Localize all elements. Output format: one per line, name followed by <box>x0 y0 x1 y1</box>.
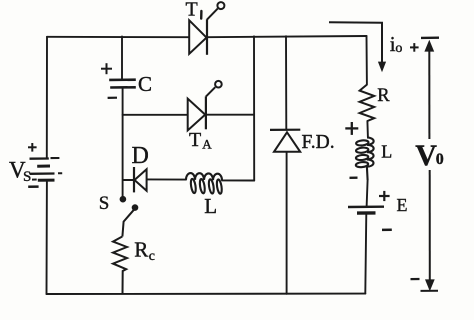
svg-text:L: L <box>381 142 392 162</box>
svg-text:T: T <box>186 0 198 20</box>
svg-text:R: R <box>377 86 390 106</box>
svg-text:T: T <box>189 129 201 151</box>
svg-text:F.D.: F.D. <box>302 132 335 153</box>
svg-text:C: C <box>138 72 152 96</box>
svg-text:c: c <box>149 249 155 264</box>
svg-text:0: 0 <box>436 151 444 168</box>
svg-text:D: D <box>132 143 149 169</box>
svg-text:S: S <box>23 169 31 185</box>
svg-text:L: L <box>204 194 217 218</box>
svg-text:E: E <box>397 195 408 215</box>
svg-text:V: V <box>415 139 437 172</box>
svg-text:o: o <box>395 41 402 56</box>
svg-text:S: S <box>99 193 110 214</box>
svg-text:R: R <box>134 238 148 262</box>
svg-text:A: A <box>202 137 212 152</box>
